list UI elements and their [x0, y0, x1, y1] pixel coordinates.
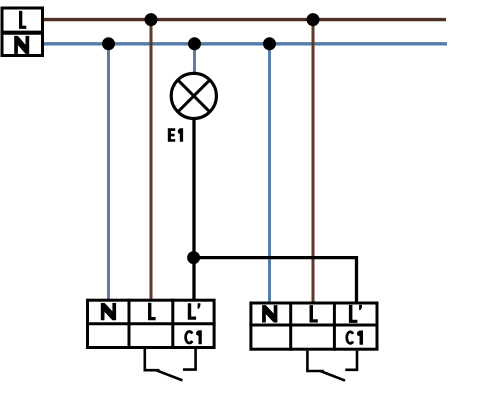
node brown bus / right L drop	[307, 13, 320, 26]
node brown bus / left L drop	[145, 13, 158, 26]
lamp E1	[168, 73, 217, 142]
wire lamp to left block Lp black	[192, 118, 195, 299]
wire brown drop to right block L terminal	[312, 20, 315, 302]
node blue bus / left N drop	[102, 37, 115, 50]
wire N blue bus	[44, 42, 447, 45]
wire blue drop to right block N terminal	[268, 44, 271, 302]
wire junction to right block Lp black	[194, 258, 357, 302]
terminal block right	[249, 302, 378, 351]
terminal block left	[86, 299, 216, 349]
node blue bus / right N drop	[263, 37, 276, 50]
wire blue drop to left block N terminal	[107, 44, 110, 299]
switch under left block	[145, 349, 196, 380]
wire blue drop to lamp E1	[193, 44, 196, 76]
node blue bus / lamp drop	[188, 37, 201, 50]
switch under right block	[307, 351, 357, 381]
terminal box supply L/N	[1, 8, 45, 56]
node black junction	[187, 251, 200, 264]
wire L brown bus	[44, 18, 446, 21]
wire brown drop to left block L terminal	[150, 20, 153, 299]
